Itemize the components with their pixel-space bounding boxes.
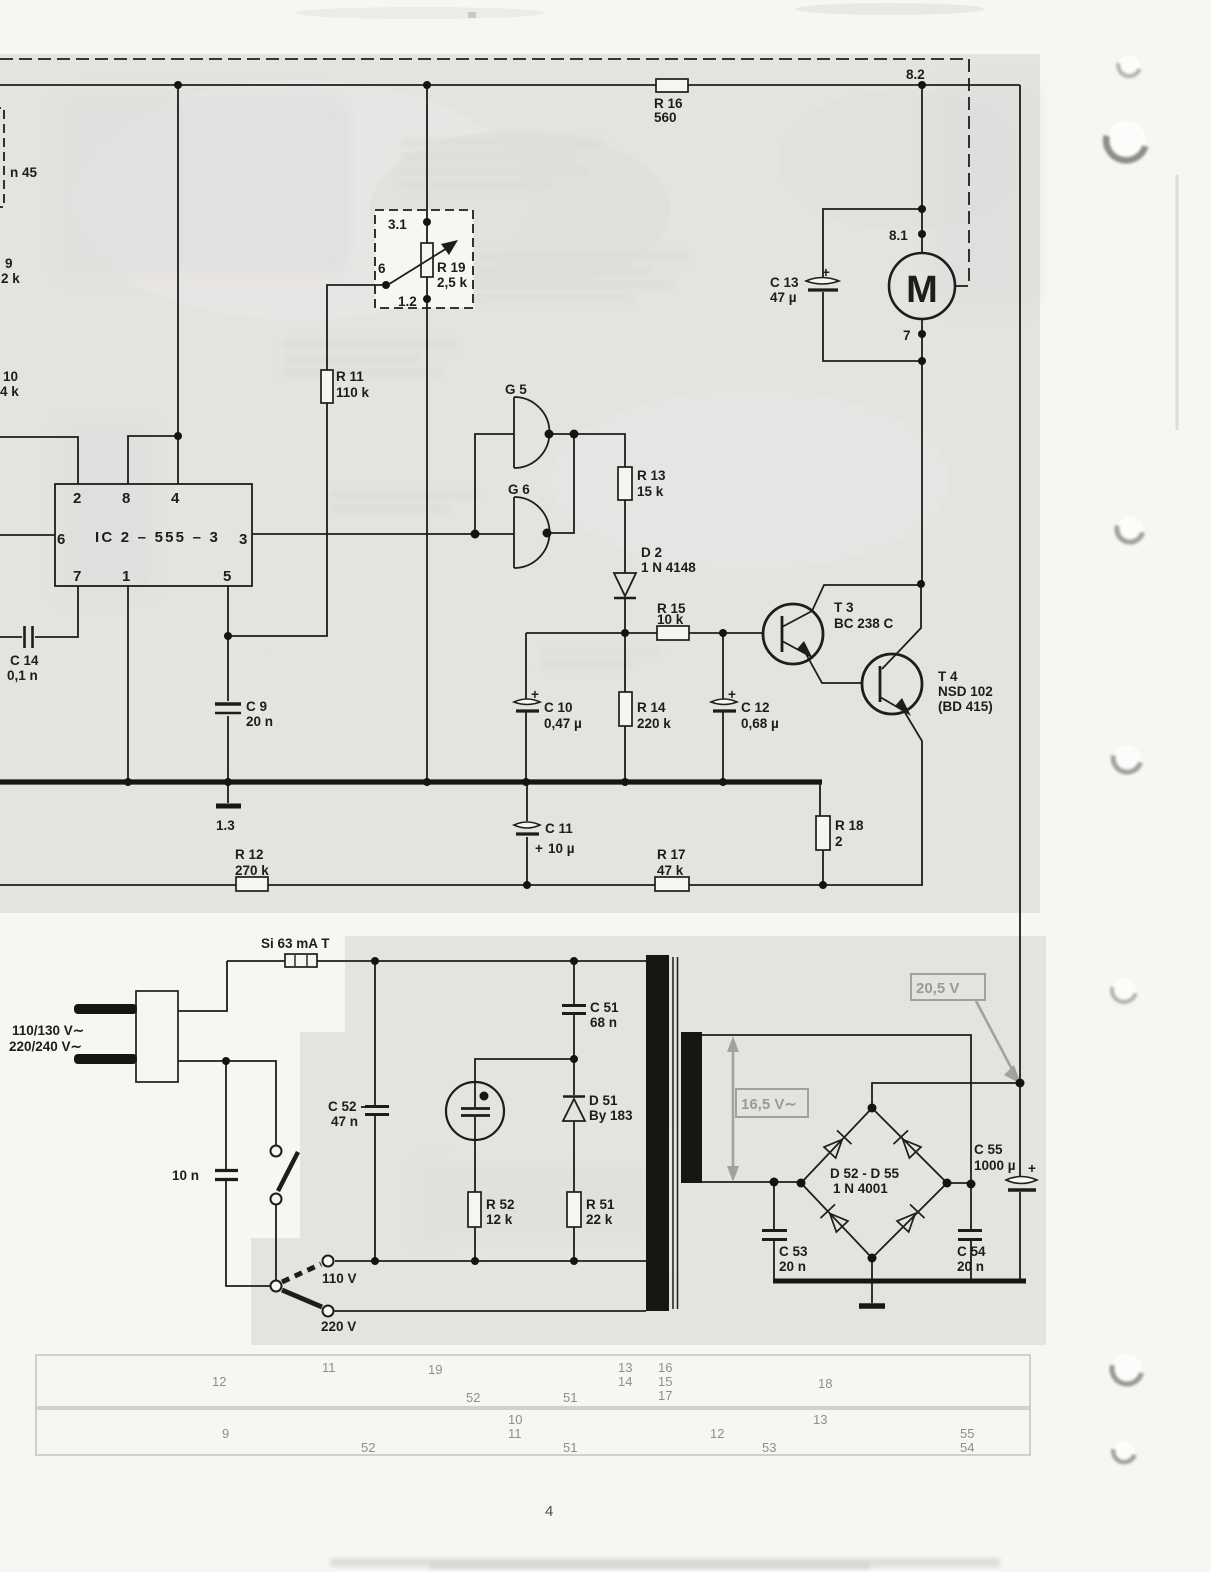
svg-text:2,5 k: 2,5 k — [437, 275, 468, 290]
svg-text:20 n: 20 n — [957, 1259, 984, 1274]
svg-text:3.1: 3.1 — [388, 217, 407, 232]
svg-text:C 55: C 55 — [974, 1142, 1003, 1157]
svg-text:3: 3 — [239, 531, 247, 548]
svg-text:52: 52 — [466, 1390, 480, 1405]
svg-text:54: 54 — [960, 1440, 974, 1455]
svg-text:17: 17 — [658, 1388, 672, 1403]
svg-text:R 17: R 17 — [657, 847, 686, 862]
svg-text:220 k: 220 k — [637, 716, 671, 731]
svg-text:12: 12 — [710, 1426, 724, 1441]
svg-text:R 12: R 12 — [235, 847, 264, 862]
svg-text:68 n: 68 n — [590, 1015, 617, 1030]
svg-text:10: 10 — [3, 369, 18, 384]
svg-text:16,5 V∼: 16,5 V∼ — [741, 1096, 797, 1113]
svg-text:13: 13 — [813, 1412, 827, 1427]
svg-text:7: 7 — [73, 568, 81, 585]
svg-text:10 µ: 10 µ — [548, 841, 575, 856]
svg-text:R 18: R 18 — [835, 818, 864, 833]
svg-text:4: 4 — [171, 490, 180, 507]
svg-text:55: 55 — [960, 1426, 974, 1441]
svg-text:8.1: 8.1 — [889, 228, 908, 243]
svg-text:C 51: C 51 — [590, 1000, 619, 1015]
svg-text:1.2: 1.2 — [398, 294, 417, 309]
svg-text:T 4: T 4 — [938, 669, 958, 684]
svg-text:1 N 4001: 1 N 4001 — [833, 1181, 888, 1196]
svg-text:7: 7 — [903, 328, 911, 343]
svg-text:8.2: 8.2 — [906, 67, 925, 82]
svg-text:R 14: R 14 — [637, 700, 666, 715]
svg-text:13: 13 — [618, 1360, 632, 1375]
svg-text:C 14: C 14 — [10, 653, 39, 668]
svg-text:C 54: C 54 — [957, 1244, 986, 1259]
svg-text:1: 1 — [122, 568, 130, 585]
svg-text:C 13: C 13 — [770, 275, 799, 290]
svg-text:BC 238 C: BC 238 C — [834, 616, 894, 631]
svg-text:47 k: 47 k — [657, 863, 684, 878]
svg-text:IC 2 – 555 – 3: IC 2 – 555 – 3 — [95, 529, 220, 546]
svg-text:18: 18 — [818, 1376, 832, 1391]
svg-text:2: 2 — [73, 490, 81, 507]
svg-text:1 N 4148: 1 N 4148 — [641, 560, 696, 575]
svg-text:14: 14 — [618, 1374, 632, 1389]
svg-text:22 k: 22 k — [586, 1212, 613, 1227]
svg-text:R 11: R 11 — [336, 369, 364, 384]
svg-text:C 10: C 10 — [544, 700, 573, 715]
svg-text:+: + — [728, 687, 736, 702]
svg-text:T 3: T 3 — [834, 600, 854, 615]
svg-text:51: 51 — [563, 1440, 577, 1455]
svg-text:2: 2 — [835, 834, 843, 849]
svg-text:C 9: C 9 — [246, 699, 267, 714]
svg-text:0,47 µ: 0,47 µ — [544, 716, 582, 731]
svg-text:C 11: C 11 — [545, 821, 573, 836]
svg-text:12: 12 — [212, 1374, 226, 1389]
svg-text:20 n: 20 n — [779, 1259, 806, 1274]
svg-text:+: + — [822, 265, 830, 280]
svg-text:4: 4 — [545, 1503, 553, 1520]
svg-text:M: M — [906, 269, 938, 311]
svg-text:R 16: R 16 — [654, 96, 683, 111]
svg-text:9: 9 — [5, 256, 13, 271]
svg-text:1.3: 1.3 — [216, 818, 235, 833]
svg-text:11: 11 — [508, 1426, 522, 1441]
svg-text:51: 51 — [563, 1390, 577, 1405]
svg-text:R 19: R 19 — [437, 260, 466, 275]
svg-text:R 52: R 52 — [486, 1197, 515, 1212]
svg-text:560: 560 — [654, 110, 677, 125]
svg-text:10: 10 — [508, 1412, 522, 1427]
svg-text:16: 16 — [658, 1360, 672, 1375]
svg-text:10 n: 10 n — [172, 1168, 199, 1183]
svg-text:D 52 - D 55: D 52 - D 55 — [830, 1166, 900, 1181]
svg-text:D 51: D 51 — [589, 1093, 618, 1108]
svg-text:G 5: G 5 — [505, 382, 527, 397]
svg-text:10 k: 10 k — [657, 612, 684, 627]
svg-text:11: 11 — [322, 1360, 336, 1375]
svg-text:47 µ: 47 µ — [770, 290, 797, 305]
svg-text:C 53: C 53 — [779, 1244, 808, 1259]
svg-text:9: 9 — [222, 1426, 229, 1441]
svg-text:220 V: 220 V — [321, 1319, 356, 1334]
svg-text:52: 52 — [361, 1440, 375, 1455]
svg-text:8: 8 — [122, 490, 130, 507]
svg-text:+: + — [1028, 1161, 1036, 1176]
svg-text:6: 6 — [378, 261, 386, 276]
svg-text:(BD 415): (BD 415) — [938, 699, 993, 714]
svg-text:0,1 n: 0,1 n — [7, 668, 38, 683]
svg-text:270 k: 270 k — [235, 863, 269, 878]
svg-text:Si 63 mA T: Si 63 mA T — [261, 936, 330, 951]
svg-text:19: 19 — [428, 1362, 442, 1377]
svg-text:5: 5 — [223, 568, 231, 585]
svg-text:20 n: 20 n — [246, 714, 273, 729]
svg-text:15 k: 15 k — [637, 484, 664, 499]
svg-text:15: 15 — [658, 1374, 672, 1389]
svg-text:+: + — [535, 841, 543, 856]
svg-text:110 V: 110 V — [322, 1271, 357, 1286]
svg-text:+: + — [531, 687, 539, 702]
svg-text:G 6: G 6 — [508, 482, 530, 497]
svg-text:110 k: 110 k — [336, 385, 370, 400]
svg-text:0,68 µ: 0,68 µ — [741, 716, 779, 731]
svg-text:R 13: R 13 — [637, 468, 666, 483]
svg-text:110/130 V∼: 110/130 V∼ — [12, 1023, 84, 1038]
svg-text:R 51: R 51 — [586, 1197, 615, 1212]
svg-text:53: 53 — [762, 1440, 776, 1455]
svg-text:D 2: D 2 — [641, 545, 662, 560]
svg-text:C 12: C 12 — [741, 700, 770, 715]
svg-text:2 k: 2 k — [1, 271, 20, 286]
svg-text:47 n: 47 n — [331, 1114, 358, 1129]
svg-text:C 52: C 52 — [328, 1099, 357, 1114]
svg-text:By 183: By 183 — [589, 1108, 633, 1123]
svg-text:20,5 V: 20,5 V — [916, 980, 959, 997]
svg-text:NSD 102: NSD 102 — [938, 684, 993, 699]
svg-text:12 k: 12 k — [486, 1212, 513, 1227]
svg-text:1000 µ: 1000 µ — [974, 1158, 1016, 1173]
svg-text:6: 6 — [57, 531, 65, 548]
svg-text:4 k: 4 k — [0, 384, 19, 399]
svg-text:n 45: n 45 — [10, 165, 38, 180]
svg-text:220/240 V∼: 220/240 V∼ — [9, 1039, 82, 1054]
